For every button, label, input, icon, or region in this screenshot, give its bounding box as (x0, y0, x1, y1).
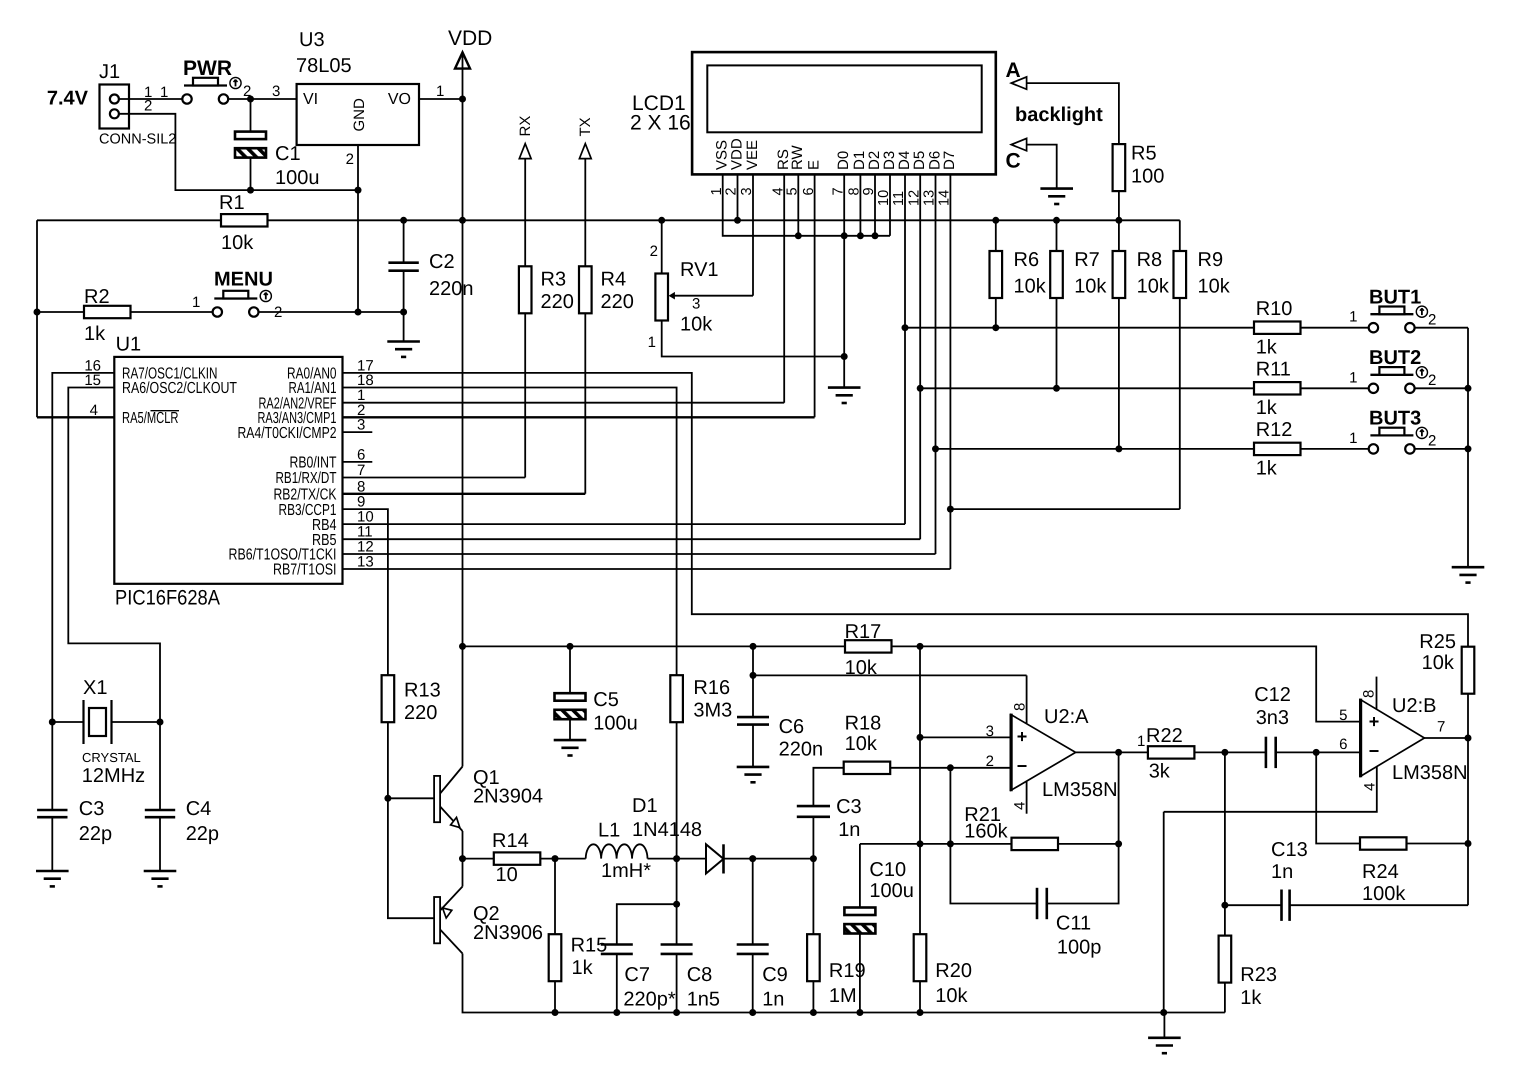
svg-text:VI: VI (303, 91, 318, 108)
junction C9 bottom (749, 1009, 756, 1016)
junction R8 bottom (1115, 445, 1122, 452)
svg-text:2: 2 (1428, 311, 1436, 328)
microcontroller U1 PIC16F628A (114, 357, 342, 584)
resistor R8 10k (1118, 220, 1120, 251)
wire PWR to U3 VI (228, 98, 297, 100)
wire to U3 GND (251, 189, 359, 191)
junction R21 left (947, 840, 954, 847)
svg-text:1k: 1k (572, 957, 594, 979)
wire RB5 row to D5 (343, 538, 921, 540)
pin 4 of U2:A (1026, 781, 1028, 814)
svg-text:VDD: VDD (728, 138, 745, 170)
svg-text:10k: 10k (1198, 276, 1231, 298)
svg-text:+: + (1017, 726, 1028, 746)
junction C2 top (400, 217, 407, 224)
svg-text:2N3904: 2N3904 (473, 786, 543, 808)
svg-text:3n3: 3n3 (1256, 707, 1289, 729)
svg-text:R8: R8 (1137, 249, 1163, 271)
svg-text:22p: 22p (79, 823, 112, 845)
wire LCD D0 down to ground (843, 174, 845, 387)
svg-text:R13: R13 (404, 680, 441, 702)
svg-text:TX: TX (577, 117, 594, 136)
junction D0 on ground row (841, 232, 848, 239)
wire RA7 to crystal X1 left (52, 373, 114, 722)
wire C11 right to output (1047, 752, 1119, 903)
svg-text:MENU: MENU (214, 269, 273, 291)
svg-text:LM358N: LM358N (1392, 762, 1468, 784)
svg-text:7.4V: 7.4V (47, 88, 89, 110)
svg-text:100p: 100p (1057, 937, 1102, 959)
svg-text:PIC16F628A: PIC16F628A (115, 587, 220, 610)
wire R17 to U2:B pin 5 (892, 646, 1361, 721)
svg-text:8: 8 (1012, 703, 1029, 711)
junction R20 bottom (917, 1009, 924, 1016)
ground under C2 (387, 342, 420, 357)
wire RB2 row to TX (343, 493, 586, 495)
crystal X1 12MHz (84, 700, 112, 744)
svg-text:C4: C4 (186, 798, 212, 820)
resistor R10 1k (1254, 322, 1301, 334)
push button MENU (213, 290, 272, 316)
ground under C3 (36, 871, 69, 886)
wire R22 to C12 (1194, 751, 1266, 753)
svg-text:5: 5 (1339, 707, 1347, 724)
svg-text:1k: 1k (1256, 397, 1278, 419)
svg-text:R24: R24 (1362, 861, 1399, 883)
junction R15 top (552, 855, 559, 862)
svg-text:100: 100 (1131, 165, 1164, 187)
wire LCD D3 down (889, 174, 891, 235)
wire R21 right to output column (1058, 843, 1119, 845)
junction R15 bottom (552, 1009, 559, 1016)
wire R5 to rail (1118, 191, 1120, 220)
svg-text:R25: R25 (1419, 631, 1456, 653)
svg-text:GND: GND (351, 98, 368, 132)
svg-text:C: C (1006, 150, 1021, 173)
junction VDD column (459, 217, 466, 224)
svg-text:VEE: VEE (744, 140, 761, 170)
wire RA1 to R16 (343, 388, 677, 676)
ground under C4 (144, 871, 177, 886)
resistor R17 10k (845, 640, 892, 652)
ground under C5 (554, 740, 587, 755)
resistor R21 160k (1012, 838, 1059, 850)
wire L1 to D1 anode (648, 858, 707, 860)
svg-text:X1: X1 (83, 677, 107, 699)
ground of buttons (1452, 567, 1485, 582)
junction VDD at VO (459, 96, 466, 103)
svg-text:R2: R2 (84, 286, 110, 308)
junction D6 with BUT3 row (932, 445, 939, 452)
svg-text:3: 3 (986, 723, 994, 740)
wire D1 cathode row (724, 858, 814, 860)
svg-text:1: 1 (160, 84, 168, 101)
junction C3 top (49, 719, 56, 726)
svg-text:RA6/OSC2/CLKOUT: RA6/OSC2/CLKOUT (122, 380, 237, 397)
resistor R9 10k (1179, 220, 1181, 251)
svg-text:1k: 1k (1256, 336, 1278, 358)
wire R9 to D7 column (950, 508, 1179, 510)
svg-text:RB0/INT: RB0/INT (290, 455, 337, 472)
junction R19 bottom (810, 1009, 817, 1016)
svg-text:78L05: 78L05 (296, 55, 352, 77)
svg-text:R18: R18 (845, 713, 882, 735)
svg-text:8: 8 (1361, 690, 1378, 698)
wire RB1 row to RX (343, 477, 526, 479)
svg-text:C8: C8 (687, 964, 713, 986)
junction D2 on ground row (872, 232, 879, 239)
resistor R18 10k (844, 762, 891, 774)
svg-text:4: 4 (1012, 802, 1029, 810)
svg-text:R11: R11 (1256, 359, 1291, 381)
svg-text:1k: 1k (84, 323, 106, 345)
svg-text:10k: 10k (1422, 652, 1455, 674)
svg-text:J1: J1 (99, 61, 120, 83)
svg-text:R14: R14 (492, 830, 529, 852)
junction C6 with op-amp supply row (750, 672, 757, 679)
capacitor C8 1n5 (661, 945, 693, 954)
wire BUT2 to ground column (1414, 387, 1468, 389)
wire RA3 row to LCD E (343, 416, 815, 418)
wire A to R5 (1027, 83, 1119, 144)
svg-text:1n5: 1n5 (687, 989, 720, 1011)
push button BUT3 (1369, 427, 1428, 453)
wire RV1 pin1 to ground column (662, 321, 845, 357)
svg-text:1: 1 (1137, 733, 1145, 750)
capacitor C4 22p (159, 722, 161, 810)
svg-text:RV1: RV1 (680, 259, 719, 281)
svg-text:13: 13 (357, 554, 374, 571)
wire button ground column (1467, 328, 1469, 568)
svg-text:1k: 1k (1256, 458, 1278, 480)
wire D4 junction to R10 (905, 327, 1254, 329)
wire R13 to Q2 base (388, 722, 434, 918)
svg-text:12MHz: 12MHz (82, 765, 145, 787)
junction VDD with V+ row (459, 643, 466, 650)
svg-text:2 X 16: 2 X 16 (630, 112, 691, 135)
wire J1 pin1 to PWR (119, 98, 183, 100)
svg-text:2: 2 (1428, 433, 1436, 450)
wire R10 to BUT1 (1301, 327, 1370, 329)
transistor Q1 2N3904 (434, 767, 462, 832)
svg-text:R7: R7 (1074, 249, 1100, 271)
junction Q1 base (384, 795, 391, 802)
wire BUT1 to ground column (1414, 327, 1468, 329)
svg-text:1: 1 (648, 334, 656, 351)
regulator U3 78L05 (297, 84, 419, 145)
svg-text:1n: 1n (1271, 861, 1293, 883)
capacitor C1 100u (250, 99, 252, 132)
junction C10 bottom (856, 1009, 863, 1016)
svg-text:1mH*: 1mH* (601, 860, 651, 882)
wire MCLR net left column (36, 220, 38, 417)
junction BUT3 ground (1465, 445, 1472, 452)
wire R22 junction down to R23 (1224, 752, 1226, 935)
wire crystal left (52, 721, 83, 723)
pin 8 of U2:A (1026, 675, 1028, 723)
svg-text:10k: 10k (1014, 276, 1047, 298)
svg-text:6: 6 (1339, 736, 1347, 753)
svg-text:100u: 100u (869, 880, 914, 902)
junction C2 bottom (400, 309, 407, 316)
junction D7 with R9 row (947, 506, 954, 513)
svg-text:C1: C1 (275, 143, 301, 165)
svg-text:1N4148: 1N4148 (632, 819, 702, 841)
junction C7 bottom (613, 1009, 620, 1016)
wire pin4 ground column (1163, 812, 1165, 1013)
svg-text:+: + (1369, 712, 1380, 732)
junction RW on ground row (795, 232, 802, 239)
junction RV1 pin2 (658, 217, 665, 224)
svg-text:R5: R5 (1131, 143, 1157, 165)
resistor R22 3k (1148, 746, 1195, 758)
svg-text:1: 1 (436, 83, 444, 100)
resistor R19 1M (812, 859, 814, 935)
wire R18 left to C3 (813, 768, 843, 806)
junction R2 left (34, 309, 41, 316)
junction C8 bottom (673, 1009, 680, 1016)
wire output column (1467, 694, 1469, 906)
svg-text:R20: R20 (935, 960, 972, 982)
wire LCD VDD to rail (737, 174, 739, 220)
svg-text:CRYSTAL: CRYSTAL (82, 750, 141, 765)
wire C to ground (1027, 145, 1057, 189)
svg-text:100u: 100u (275, 167, 320, 189)
svg-text:220p*: 220p* (623, 989, 675, 1011)
svg-text:RA4/T0CKI/CMP2: RA4/T0CKI/CMP2 (238, 425, 337, 442)
resistor R1 (221, 214, 268, 226)
wire C7 top to R16 column (617, 904, 677, 944)
capacitor C6 220n (752, 646, 754, 717)
svg-text:160k: 160k (964, 821, 1008, 843)
junction R6 top (992, 217, 999, 224)
svg-text:3M3: 3M3 (693, 700, 732, 722)
wire J1 pin2 to ground net (119, 114, 251, 190)
junction R24 tap (1313, 749, 1320, 756)
svg-text:PWR: PWR (183, 57, 232, 80)
wire BUT3 to ground column (1414, 448, 1468, 450)
diode D1 1N4148 (706, 844, 724, 873)
wire U3 VO to VDD (419, 98, 463, 100)
wire RA2 row to LCD RS (343, 402, 785, 404)
resistor R12 1k (1254, 443, 1301, 455)
push button BUT1 (1369, 306, 1428, 332)
resistor R6 10k (995, 220, 997, 251)
junction C3 R19 node (810, 855, 817, 862)
ground under C6 (737, 767, 770, 782)
svg-text:R10: R10 (1256, 298, 1293, 320)
junction output with R25 (1465, 735, 1472, 742)
svg-text:2: 2 (1428, 372, 1436, 389)
wire to R2 (37, 311, 84, 313)
svg-text:4: 4 (1362, 783, 1379, 791)
svg-text:1k: 1k (1240, 987, 1262, 1009)
svg-text:3: 3 (357, 417, 365, 434)
capacitor C12 3n3 (1266, 737, 1276, 768)
svg-text:RB7/T1OSI: RB7/T1OSI (273, 562, 337, 579)
svg-text:6: 6 (357, 446, 365, 463)
junction R5 bottom R8 top (1115, 217, 1122, 224)
resistor R15 1k (554, 859, 556, 935)
svg-text:22p: 22p (186, 823, 219, 845)
svg-text:220: 220 (541, 291, 574, 313)
ground under D0 column (828, 388, 861, 403)
svg-text:LM358N: LM358N (1042, 779, 1118, 801)
svg-text:D1: D1 (632, 795, 658, 817)
junction R7 top (1053, 217, 1060, 224)
resistor R7 10k (1056, 220, 1058, 251)
resistor R4 220 (584, 159, 586, 267)
wire C12 to U2:B pin 6 (1276, 751, 1361, 753)
svg-text:2: 2 (650, 243, 658, 260)
svg-text:U2:A: U2:A (1044, 706, 1089, 728)
svg-text:U1: U1 (116, 333, 142, 355)
svg-text:A: A (1006, 59, 1021, 82)
svg-text:R3: R3 (541, 269, 567, 291)
svg-text:2N3906: 2N3906 (473, 922, 543, 944)
junction C4 top (157, 719, 164, 726)
wire C10 top (859, 844, 861, 908)
svg-text:7: 7 (357, 462, 365, 479)
wire LCD VEE down to RV1 wiper (752, 174, 754, 295)
connector J1 CONN-SIL2 (100, 85, 130, 129)
junction output with feedback (1115, 749, 1122, 756)
overline MCLR (151, 410, 180, 412)
op-amp U2:B LM358N (1361, 699, 1425, 778)
svg-text:C13: C13 (1271, 839, 1308, 861)
svg-text:D0: D0 (835, 151, 852, 170)
svg-text:backlight: backlight (1015, 104, 1103, 126)
wire LCD RW down (797, 174, 799, 235)
svg-text:VO: VO (388, 91, 411, 108)
wire LCD RS down to RA2 row (783, 174, 785, 402)
svg-text:VDD: VDD (448, 27, 492, 50)
svg-text:10: 10 (496, 864, 518, 886)
wire to U2:A pin 3 (920, 736, 1011, 738)
svg-text:R22: R22 (1146, 725, 1183, 747)
svg-text:RA5/MCLR: RA5/MCLR (122, 410, 179, 427)
inductor L1 1mH (586, 844, 648, 858)
resistor R13 220 (382, 675, 395, 722)
svg-text:RX: RX (517, 116, 534, 137)
svg-text:R6: R6 (1014, 249, 1040, 271)
wire C13 to output column (1290, 904, 1468, 906)
svg-text:D7: D7 (941, 151, 958, 170)
svg-text:1: 1 (1349, 369, 1357, 386)
wire crystal right (112, 721, 161, 723)
svg-text:C9: C9 (762, 964, 788, 986)
svg-text:U3: U3 (299, 29, 325, 51)
svg-text:BUT1: BUT1 (1369, 286, 1421, 308)
power symbol VDD (455, 52, 470, 68)
wiper of RV1 (674, 295, 753, 297)
svg-text:R12: R12 (1256, 419, 1293, 441)
svg-text:220n: 220n (429, 278, 474, 300)
resistor R5 100 (1113, 144, 1126, 191)
svg-text:10k: 10k (935, 985, 968, 1007)
junction pin3 row (917, 734, 924, 741)
svg-text:3: 3 (272, 83, 280, 100)
wire Q2 collector to ground row (463, 954, 1225, 1013)
svg-text:220: 220 (601, 291, 634, 313)
svg-text:10k: 10k (1137, 276, 1170, 298)
junction emitters with R14 (459, 855, 466, 862)
wire LCD D2 down (874, 174, 876, 235)
wire Q1 emitter to Q2 emitter (462, 831, 464, 887)
junction D1 on ground row (857, 232, 864, 239)
wire MENU to ground net (259, 311, 404, 313)
resistor R23 1k (1219, 936, 1232, 983)
wire bias row to R21 (860, 843, 1012, 845)
wire LCD D6 down to RB6 row (935, 174, 937, 554)
junction R24 right (1465, 840, 1472, 847)
svg-text:10k: 10k (1074, 276, 1107, 298)
push button PWR (182, 77, 241, 103)
wire RB3 to R13 (343, 509, 388, 675)
svg-text:220n: 220n (779, 739, 824, 761)
svg-text:R1: R1 (219, 192, 245, 214)
wire U2:B pin 4 to ground (1164, 766, 1377, 811)
junction with C7 row (673, 901, 680, 908)
wire RA5/MCLR to R1 R2 net (37, 416, 114, 418)
svg-text:RB1/RX/DT: RB1/RX/DT (276, 470, 337, 487)
junction D4 with BUT1 row (902, 324, 909, 331)
junction BUT2 ground (1465, 385, 1472, 392)
svg-text:1M: 1M (829, 985, 857, 1007)
junction R16 with tank row (673, 855, 680, 862)
wire R18 to U2:A pin 2 (890, 767, 1011, 769)
svg-text:L1: L1 (598, 820, 620, 842)
transistor Q2 2N3906 (434, 887, 462, 954)
ground of bottom row (1163, 1013, 1165, 1038)
svg-text:3k: 3k (1149, 761, 1171, 783)
junction U3 GND (355, 187, 362, 194)
junction D5 with BUT2 row (917, 385, 924, 392)
svg-text:R4: R4 (601, 269, 627, 291)
resistor R14 10 (463, 858, 494, 860)
svg-text:BUT2: BUT2 (1369, 347, 1421, 369)
svg-text:100u: 100u (593, 713, 638, 735)
svg-text:R9: R9 (1198, 249, 1224, 271)
resistor R25 10k (1462, 647, 1475, 694)
wire pin6 tap to R24 (1316, 752, 1360, 843)
svg-text:10k: 10k (845, 657, 878, 679)
svg-text:C11: C11 (1056, 912, 1091, 934)
svg-text:10k: 10k (845, 733, 878, 755)
svg-text:10k: 10k (221, 232, 254, 254)
svg-text:C10: C10 (869, 859, 906, 881)
junction C13 left (1221, 902, 1228, 909)
wire V+ row to R17 (463, 645, 846, 647)
ground of backlight (1040, 189, 1073, 204)
svg-text:2: 2 (346, 151, 354, 168)
svg-text:CONN-SIL2: CONN-SIL2 (99, 132, 176, 148)
wire V+ to U2:A pin 8 (753, 674, 1027, 676)
svg-text:15: 15 (84, 372, 101, 389)
svg-text:1n: 1n (838, 819, 860, 841)
junction C1 bottom (247, 187, 254, 194)
wire LCD D7 down to RB7 row (949, 174, 951, 569)
junction LCD VDD (734, 217, 741, 224)
junction R17 right with R20 column (917, 643, 924, 650)
pin 8 of U2:B (1376, 677, 1378, 710)
wire R16 to tank circuit (676, 722, 678, 944)
junction C6 top (750, 643, 757, 650)
svg-text:2: 2 (986, 753, 994, 770)
junction D0 with RV1 pin1 row (841, 353, 848, 360)
push button BUT2 (1369, 367, 1428, 393)
wire LCD D5 down to RB5 row (919, 174, 921, 539)
